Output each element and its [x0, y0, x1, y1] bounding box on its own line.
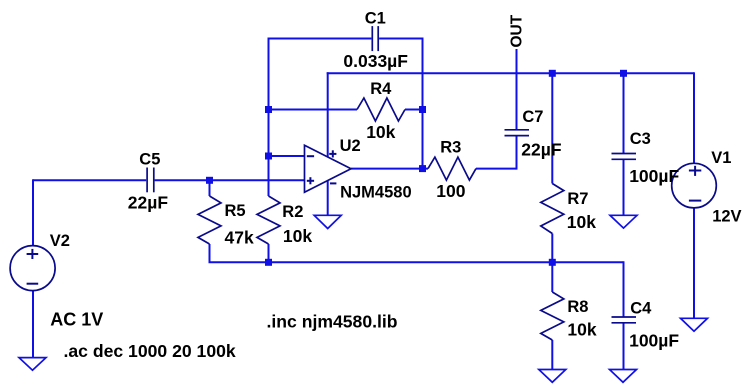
svg-text:R2: R2	[282, 203, 303, 221]
svg-text:R7: R7	[567, 190, 588, 208]
svg-text:100µF: 100µF	[629, 330, 679, 350]
svg-text:12V: 12V	[712, 207, 741, 225]
svg-text:C7: C7	[522, 108, 543, 126]
svg-text:C3: C3	[630, 130, 651, 148]
svg-text:U2: U2	[340, 137, 361, 155]
svg-text:V1: V1	[711, 149, 731, 167]
svg-text:10k: 10k	[567, 320, 596, 340]
svg-text:OUT: OUT	[509, 14, 526, 47]
svg-text:.ac dec 1000 20 100k: .ac dec 1000 20 100k	[64, 341, 236, 361]
svg-text:100: 100	[436, 181, 465, 201]
svg-text:R4: R4	[370, 80, 392, 98]
svg-text:V2: V2	[50, 232, 70, 250]
svg-text:0.033µF: 0.033µF	[343, 51, 408, 71]
svg-text:10k: 10k	[366, 122, 395, 142]
svg-text:R3: R3	[440, 138, 461, 156]
svg-text:22µF: 22µF	[128, 193, 169, 213]
svg-text:10k: 10k	[567, 212, 596, 232]
svg-text:AC 1V: AC 1V	[50, 309, 103, 329]
svg-text:NJM4580: NJM4580	[340, 184, 412, 202]
svg-text:C1: C1	[365, 10, 386, 28]
svg-text:.inc njm4580.lib: .inc njm4580.lib	[267, 311, 398, 331]
svg-text:R5: R5	[225, 202, 246, 220]
svg-text:R8: R8	[567, 298, 588, 316]
svg-text:C4: C4	[630, 300, 652, 318]
svg-text:22µF: 22µF	[521, 139, 562, 159]
svg-text:47k: 47k	[225, 228, 254, 248]
svg-text:100µF: 100µF	[629, 166, 679, 186]
svg-text:C5: C5	[139, 151, 160, 169]
svg-text:10k: 10k	[283, 226, 312, 246]
